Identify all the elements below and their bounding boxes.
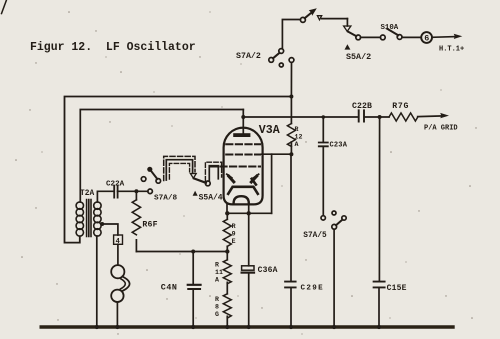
switch S5A/4 wiper triangle [190,174,196,179]
tube V3A envelope [224,124,280,204]
jack plug bottom circle [111,290,123,302]
capacitor C29E [285,282,324,330]
wire: tube bottom centre lead [248,204,250,213]
capacitor C4N [161,250,201,330]
svg-text:R7G: R7G [392,102,409,111]
switch S7A/5 [303,211,346,329]
wire: from R6F bottom across to R9E/R11A junction [136,251,227,253]
resistor R6F [132,191,158,251]
svg-text:R: R [232,223,236,230]
switch S7A/8 [141,167,177,203]
terminal box 4 [114,235,123,246]
wire: drop from C22B/R7G junction to C15E [378,117,380,281]
switch S10A [381,24,403,39]
wire to terminal 6 [402,36,421,38]
resistor R12A [287,95,302,155]
svg-text:S5A/4: S5A/4 [199,194,223,203]
svg-text:S7A/8: S7A/8 [154,195,177,203]
svg-text:C29E: C29E [301,285,324,293]
wire: box 4 to jack [117,244,119,265]
svg-text:H.T.1+: H.T.1+ [439,46,464,54]
marker and label S5A/4 [193,191,223,203]
capacitor C22A [106,181,125,198]
wire: anode drop to junction and into tube [242,110,244,134]
ganged-link staple left (dashed outer) [164,156,195,180]
wire: C22A to switch S7A/8 contact [118,190,148,192]
svg-text:C22B: C22B [352,102,372,111]
switch S5A/4 blade [194,178,206,182]
svg-text:V3A: V3A [259,124,280,137]
svg-text:P/A GRID: P/A GRID [424,125,458,133]
svg-text:C23A: C23A [330,142,348,150]
terminal circle 6 [421,32,432,44]
svg-text:C22A: C22A [106,181,125,189]
svg-text:R: R [215,262,219,269]
resistor R8G [215,294,231,329]
corner registration mark [2,0,7,14]
node: jack ground junction [115,325,119,329]
svg-text:C15E: C15E [387,284,407,293]
node: anode junction [241,115,245,119]
node: junction C23A on output line [322,115,326,119]
tube cathode dome [234,196,249,203]
svg-text:A: A [215,277,219,284]
svg-text:T2A: T2A [80,190,95,198]
capacitor C36A (electrolytic) [242,213,278,329]
node: secondary ground junction [95,325,99,329]
svg-text:R: R [215,296,219,303]
arrow to H.T.1+ [432,34,464,54]
wire: secondary bottom lead to ground [96,236,98,327]
svg-text:8: 8 [215,304,219,311]
wire: grid2 line to R12A and down to C29E [262,154,292,281]
wire: C22B right plate to R7G [364,116,389,118]
wire: outer feedback loop (left winding bottom, up left side, top to R12A junction) [65,97,292,243]
switch S5A/4 pivot circle [205,181,210,186]
svg-text:R: R [295,126,299,133]
svg-text:S10A: S10A [381,24,399,32]
svg-text:A: A [295,141,299,148]
capacitor C23A [319,117,348,216]
ganged-link staple left (dashed inner) [169,163,189,179]
wire: tap to terminal 4 box [102,224,118,235]
wire: inner loop (primary top up and across to anode drop) [80,110,243,203]
jack plug top circle [111,265,124,278]
resistor R9E [223,213,235,251]
node: junction C22B/R7G drop [378,115,382,119]
node: junction C36A lead [247,211,251,215]
tube heater mark right [254,174,259,178]
top wiper blade with arrow [300,8,347,22]
svg-text:R6F: R6F [142,220,157,229]
node: junction R9E [225,211,229,215]
resistor R7G [389,102,418,121]
ganged-link staple right (solid) [209,166,218,181]
svg-text:G: G [215,311,219,318]
wire: grid2 right drop to cathode bar [271,154,273,213]
tube cathode bridge [228,187,258,194]
svg-text:S7A/5: S7A/5 [303,232,327,240]
svg-text:S7A/2: S7A/2 [236,51,261,61]
jack plug crescent arc [122,277,130,292]
node: junction R9E/R11A to R6F wire [225,249,229,253]
switch S7A/2 [236,20,300,97]
tube anode bar [233,133,250,137]
switch S5A/2 [344,19,386,62]
wire: jack to ground [116,302,118,327]
svg-text:9: 9 [232,230,236,237]
ground bus [41,325,453,328]
svg-text:C4N: C4N [161,282,178,292]
tube grid 2 (dashed) [226,154,260,156]
tube grid 3 (dashed, extends left of envelope) [211,166,260,168]
resistor R11A [215,252,231,294]
tube grid 1 (dashed) [226,143,260,145]
wire: arrow to P/A GRID [418,113,458,133]
svg-text:12: 12 [295,133,303,140]
svg-text:E: E [232,238,236,245]
svg-text:S5A/2: S5A/2 [346,52,371,62]
tube heater mark left [227,174,232,178]
svg-text:Figur 12. LF Oscillator: Figur 12. LF Oscillator [30,41,196,54]
svg-text:C36A: C36A [258,266,278,275]
wire: tube bottom left lead to cathode junction [226,204,228,214]
capacitor C15E [374,282,407,330]
wire: secondary top lead to C22A [97,191,113,202]
node: secondary tap [100,222,104,226]
transformer T2A core [80,190,95,236]
ganged-link staple right (dashed) [205,162,221,181]
ganged-link staple left (solid) [166,160,192,180]
svg-text:11: 11 [215,269,223,276]
capacitor C22B [352,102,372,122]
transformer T2A primary winding [76,202,83,236]
transformer T2A secondary winding [94,202,101,236]
wire: output line y=117 from anode junction to C22B [243,116,358,118]
node: R6F top junction [134,189,138,193]
wire: cathode junction bar below tube [227,212,272,214]
svg-text:6: 6 [424,34,429,44]
